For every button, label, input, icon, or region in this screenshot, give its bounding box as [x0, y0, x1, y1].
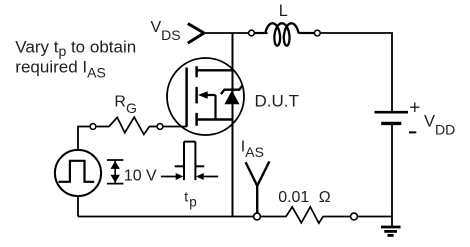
- svg-text:tp: tp: [184, 189, 196, 210]
- wire RG leads: [96, 126, 109, 128]
- terminal circle 0.01 ohm right: [351, 213, 358, 220]
- terminal circle RG right: [157, 124, 163, 130]
- transistor Q1 drain lead: [197, 69, 233, 71]
- annotation 10 V double arrow: [107, 160, 124, 184]
- wire bottom rail left: [78, 216, 287, 218]
- terminal circle inductor left: [249, 30, 255, 36]
- transistor Q1 channel segment top: [195, 66, 198, 77]
- wire battery to ground: [391, 124, 393, 227]
- annotation tp arrows: [161, 173, 218, 180]
- transistor Q1 channel segment bottom: [195, 113, 198, 126]
- transistor Q1 channel segment middle: [195, 87, 198, 104]
- VDS probe arrow: [188, 24, 204, 43]
- ground: [381, 227, 401, 235]
- op circle of MOSFET D.U.T: [167, 58, 244, 135]
- wire pulse generator bottom: [77, 196, 79, 216]
- svg-text:IAS: IAS: [241, 138, 264, 160]
- inductor L: [254, 23, 315, 45]
- wire drain/source vertical: [232, 33, 234, 217]
- note: Vary tp to obtain required IAS: [15, 37, 136, 80]
- terminal circle inductor right: [314, 30, 320, 36]
- body zener diode: [221, 85, 243, 104]
- svg-text:Ω: Ω: [319, 189, 331, 206]
- label minus: [409, 131, 416, 133]
- pulse generator V1: [55, 150, 101, 196]
- svg-text:0.01: 0.01: [278, 189, 309, 206]
- svg-text:D.U.T: D.U.T: [255, 92, 299, 111]
- annotation tp pulse: [175, 142, 205, 181]
- transistor Q1 gate line: [185, 68, 188, 127]
- svg-text:L: L: [279, 2, 288, 20]
- pulse generator waveform: [59, 161, 95, 182]
- svg-text:RG: RG: [114, 94, 136, 116]
- svg-text:required IAS: required IAS: [15, 58, 106, 81]
- transistor Q1 source lead: [197, 118, 233, 120]
- svg-text:VDS: VDS: [151, 19, 181, 43]
- wire top rail left: [203, 32, 252, 34]
- wire gate lead: [163, 126, 187, 128]
- svg-text:VDD: VDD: [424, 113, 455, 138]
- battery VDD plates: [375, 112, 409, 123]
- wire inductor to right corner and down to battery: [317, 33, 392, 111]
- transistor Q1 body arrow: [198, 91, 216, 119]
- wire RG left corner from pulse generator: [78, 127, 93, 151]
- resistor 0.01 ohm: [286, 207, 323, 223]
- junction circle IAS: [254, 213, 261, 220]
- resistor RG: [109, 117, 149, 134]
- terminal circle RG left: [90, 124, 96, 130]
- wire bottom rail right: [323, 216, 392, 218]
- svg-text:+: +: [409, 98, 420, 119]
- svg-text:10 V: 10 V: [124, 168, 157, 185]
- current probe IAS: [246, 161, 270, 215]
- svg-text:Vary tp to obtain: Vary tp to obtain: [15, 37, 136, 59]
